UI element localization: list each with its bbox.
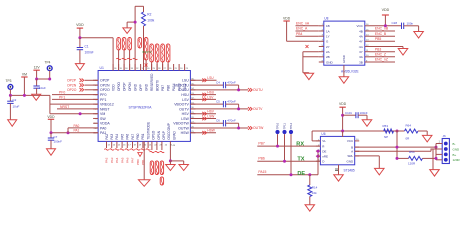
svg-text:HSW: HSW	[207, 129, 214, 133]
svg-text:VCC: VCC	[347, 139, 354, 143]
svg-text:3Y: 3Y	[359, 50, 363, 54]
ground below J6	[430, 170, 440, 177]
svg-text:nG: nG	[359, 45, 364, 49]
ground for nG	[398, 49, 408, 56]
ground below C1	[75, 64, 84, 71]
net label ENC_nA wire	[296, 21, 319, 25]
svg-text:J6: J6	[443, 134, 447, 138]
svg-text:LSV: LSV	[207, 95, 214, 99]
svg-text:OP2O: OP2O	[67, 88, 77, 92]
capacitor C28 100n	[392, 21, 419, 31]
svg-text:GND: GND	[347, 159, 355, 163]
capacitor C4 470nF bootstrap U	[190, 80, 238, 89]
net label ENC_Z wire	[370, 53, 396, 57]
svg-text:PA1: PA1	[74, 129, 80, 133]
svg-text:R14: R14	[312, 186, 318, 190]
U1 right pin names	[173, 79, 189, 135]
port HSU	[190, 91, 216, 97]
svg-text:C1: C1	[85, 45, 89, 49]
svg-text:C2: C2	[13, 98, 17, 102]
svg-text:LSW: LSW	[181, 117, 189, 121]
wire EPAD to grounds	[169, 141, 184, 164]
wire 12V to TP4	[35, 78, 51, 81]
net labels OP1 group below U1	[150, 141, 165, 174]
power port 12V	[33, 66, 40, 79]
svg-text:PA0: PA0	[74, 124, 80, 128]
net label OSCCOMP below U1	[160, 177, 163, 185]
resistor R2 100k	[142, 6, 155, 70]
svg-text:TP10: TP10	[276, 122, 280, 129]
ground below C7	[47, 149, 56, 156]
svg-text:100nF: 100nF	[54, 140, 63, 144]
ground tie at BOOT0 divider	[123, 22, 135, 33]
no-connect X on 2Y	[306, 45, 309, 48]
testpoint TP11 on TX	[282, 123, 286, 163]
svg-text:ST3485: ST3485	[344, 168, 355, 172]
svg-text:HSV: HSV	[207, 110, 214, 114]
U1 left pin names	[100, 79, 114, 135]
svg-text:OP0P: OP0P	[122, 82, 126, 91]
capacitor C3 10uF 12V rail	[33, 79, 46, 94]
svg-text:PA5: PA5	[120, 134, 124, 140]
svg-text:PA3: PA3	[110, 157, 114, 163]
svg-text:VCC: VCC	[356, 24, 363, 28]
wire squiggles above U1 edge	[116, 58, 137, 59]
svg-text:SRL: SRL	[347, 154, 353, 158]
svg-text:OPP: OPP	[139, 84, 143, 91]
svg-text:ENC_A: ENC_A	[296, 27, 308, 31]
svg-text:STSPIN32F0A: STSPIN32F0A	[129, 105, 153, 109]
net label NRST wire	[57, 105, 98, 109]
U6 GND stub and ground	[334, 165, 344, 181]
svg-text:VDD: VDD	[339, 102, 347, 106]
net label PB5 wire	[370, 37, 396, 41]
svg-text:PB7: PB7	[161, 85, 165, 91]
net label PB3 wire	[370, 47, 396, 51]
svg-text:PB3: PB3	[375, 47, 382, 51]
wire VDD to PA0 PA1	[50, 128, 99, 134]
svg-text:PF1: PF1	[59, 95, 65, 99]
net label PB7 wire RX	[257, 142, 320, 147]
svg-text:1Y: 1Y	[326, 35, 330, 39]
svg-text:VM: VM	[100, 112, 105, 116]
svg-text:PA12: PA12	[183, 83, 187, 91]
svg-text:PB6: PB6	[166, 85, 170, 91]
wire OUTV with junction	[190, 107, 248, 110]
svg-text:VBOOTU: VBOOTU	[174, 83, 189, 87]
U8 GND stub and ground	[339, 65, 349, 83]
port HSV	[190, 110, 216, 116]
svg-text:OP1O: OP1O	[152, 130, 156, 139]
svg-text:VDDA: VDDA	[100, 122, 110, 126]
svg-text:ENC_B: ENC_B	[375, 32, 387, 36]
svg-text:U8: U8	[324, 17, 328, 21]
net label PB4 wire	[296, 32, 319, 36]
power port VDD above C1	[76, 23, 84, 38]
wire nG to ground	[370, 47, 404, 49]
svg-text:470nF: 470nF	[227, 100, 236, 104]
port OP2O with arrow	[67, 88, 98, 92]
U8 pin names	[326, 24, 364, 64]
no-connect x above U1	[145, 64, 148, 67]
svg-text:10uF: 10uF	[13, 105, 20, 109]
wire TP3 to VM rail	[9, 94, 50, 97]
svg-text:EPAD: EPAD	[172, 130, 176, 139]
wire VDD to U8 G pin	[287, 40, 319, 42]
U1 bottom pin numbers row	[108, 144, 174, 146]
svg-text:C7: C7	[54, 135, 58, 139]
svg-text:U6: U6	[321, 132, 325, 136]
net labels PB0 PB1 below U1	[136, 141, 146, 165]
svg-text:VDD: VDD	[76, 23, 84, 27]
wire VREG12	[50, 103, 98, 105]
capacitor C6 470nF bootstrap W	[190, 119, 238, 128]
svg-text:10k: 10k	[312, 191, 317, 195]
U1 right pin stubs	[190, 80, 195, 132]
power port VM	[21, 73, 27, 97]
svg-text:nRE: nRE	[322, 154, 328, 158]
svg-text:LSW: LSW	[207, 114, 214, 118]
svg-text:2Y: 2Y	[326, 45, 330, 49]
svg-text:VDD: VDD	[283, 17, 291, 21]
svg-text:BOOT0: BOOT0	[143, 50, 152, 54]
ground wire TESTMODE	[138, 141, 150, 186]
svg-text:C28: C28	[392, 21, 398, 25]
ground below C3	[32, 94, 41, 100]
wire VM net to U1 VM pin	[50, 95, 98, 115]
svg-text:1A: 1A	[326, 29, 330, 33]
U1 top pin names	[111, 73, 186, 91]
U8 pin stubs	[319, 26, 370, 62]
testpoint TP10 on RX	[275, 122, 279, 147]
svg-text:PA2: PA2	[105, 157, 109, 163]
svg-text:PA14: PA14	[172, 83, 176, 91]
resistor R54 120R termination	[396, 150, 437, 165]
ground for 2A 2B	[304, 73, 314, 80]
svg-text:3A: 3A	[359, 55, 363, 59]
ground right of R64	[422, 135, 432, 142]
svg-text:PA13: PA13	[177, 83, 181, 91]
net labels PB column above U1	[138, 38, 170, 71]
port LSU	[190, 76, 216, 82]
port LSV	[190, 95, 216, 101]
svg-text:TP3: TP3	[6, 79, 12, 83]
U6 pin numbers	[318, 139, 359, 162]
svg-text:PB0: PB0	[136, 159, 140, 165]
U1 bottom pin names	[105, 122, 177, 140]
svg-text:OP2N: OP2N	[67, 83, 77, 87]
op-amp U1 body STSPIN32F0A	[98, 66, 190, 141]
capacitor C7 100nF	[48, 133, 62, 149]
svg-text:DE: DE	[297, 171, 305, 177]
svg-text:OUTV: OUTV	[253, 107, 263, 111]
svg-text:OUTW: OUTW	[253, 126, 264, 130]
wire OUTW with junction	[190, 127, 248, 130]
svg-text:B-: B-	[453, 142, 456, 146]
svg-text:OSCCOMP: OSCCOMP	[167, 123, 171, 139]
svg-text:HSV: HSV	[182, 112, 190, 116]
svg-text:R53: R53	[383, 124, 389, 128]
svg-text:PA2: PA2	[105, 134, 109, 140]
svg-text:OP2N: OP2N	[100, 83, 110, 87]
svg-text:VBOOTV: VBOOTV	[174, 103, 189, 107]
svg-text:RX: RX	[296, 141, 304, 147]
port OP2P with arrow	[67, 79, 98, 83]
svg-text:OUTU: OUTU	[253, 88, 263, 92]
svg-text:GND: GND	[144, 83, 148, 91]
net label ENC_B wire	[370, 32, 396, 36]
svg-text:VL: VL	[322, 139, 326, 143]
svg-text:PB5: PB5	[375, 37, 382, 41]
svg-text:ENC_nB: ENC_nB	[375, 27, 389, 31]
svg-text:VDD: VDD	[111, 84, 115, 91]
svg-text:PA4: PA4	[115, 134, 119, 140]
svg-text:PF0: PF0	[59, 91, 65, 95]
svg-text:VREG12: VREG12	[100, 103, 114, 107]
IC U6 body ST3485	[320, 132, 354, 172]
svg-text:OP2P: OP2P	[100, 79, 110, 83]
svg-text:R64: R64	[406, 124, 412, 128]
svg-text:OUTV: OUTV	[179, 107, 189, 111]
ground EPAD 2	[179, 165, 189, 171]
svg-text:100nF: 100nF	[85, 51, 94, 55]
svg-text:OP2P: OP2P	[67, 79, 77, 83]
ground right of C101	[362, 120, 372, 127]
power port VDD above C28	[382, 8, 390, 15]
port OUTV arrow	[248, 107, 263, 111]
port HSW	[190, 129, 216, 135]
svg-text:3B: 3B	[359, 60, 363, 64]
svg-text:PB0: PB0	[136, 133, 140, 139]
svg-text:HSU: HSU	[207, 91, 214, 95]
net label ENC_nB wire	[370, 27, 396, 31]
svg-text:BOOT0: BOOT0	[155, 80, 159, 91]
svg-text:4Y: 4Y	[359, 40, 363, 44]
wire GND column x135.7	[134, 6, 144, 70]
svg-text:U1: U1	[100, 66, 104, 70]
wire J6 pin2 to ground	[433, 149, 436, 170]
svg-text:PA6: PA6	[126, 134, 130, 140]
IC U8 body AM26LV32E	[324, 17, 365, 74]
testpoint TP4	[45, 61, 53, 80]
capacitor C5 470nF bootstrap V	[190, 100, 238, 109]
U1 top pin stubs	[113, 64, 185, 71]
svg-text:GND: GND	[133, 83, 137, 91]
net label PF0 wire	[52, 91, 98, 95]
ground for SRL	[375, 168, 385, 175]
power port VDD left of U8	[283, 17, 291, 42]
svg-text:TP12: TP12	[289, 122, 293, 129]
testpoint TP12 on DE	[289, 122, 293, 176]
svg-text:LSV: LSV	[182, 98, 189, 102]
port LSW	[190, 114, 216, 120]
svg-text:120R: 120R	[408, 162, 416, 166]
svg-text:VBOOTW: VBOOTW	[173, 122, 189, 126]
svg-text:HSU: HSU	[181, 93, 189, 97]
port OUTU arrow	[248, 88, 263, 92]
svg-text:TP4: TP4	[45, 61, 51, 65]
svg-text:NRST: NRST	[100, 107, 110, 111]
svg-text:100n: 100n	[407, 21, 414, 25]
svg-text:OP1P: OP1P	[162, 131, 166, 140]
node VDD rail to U1 pin1	[78, 36, 113, 70]
svg-text:PA7: PA7	[131, 134, 135, 140]
svg-text:LSU: LSU	[182, 79, 189, 83]
svg-text:100nF: 100nF	[360, 111, 368, 115]
U6 pin names	[322, 139, 354, 163]
svg-text:GND: GND	[453, 147, 461, 151]
svg-text:TX: TX	[297, 157, 304, 163]
svg-text:C101: C101	[345, 111, 352, 115]
svg-text:VM: VM	[22, 73, 27, 77]
J6 pin stubs and vertical tie	[435, 144, 443, 160]
port OP2N with arrow	[67, 83, 98, 87]
capacitor C101 100nF	[341, 111, 368, 120]
svg-text:B+: B+	[453, 153, 457, 157]
wire DE up to DE and nRE pins	[317, 150, 321, 175]
resistor R53 NP on VDD rail	[383, 124, 394, 139]
svg-text:ENC_nA: ENC_nA	[296, 21, 310, 25]
net labels PA2-PA7 below U1	[104, 141, 134, 163]
svg-text:PA0: PA0	[100, 126, 106, 130]
svg-text:470nF: 470nF	[227, 80, 236, 84]
wire 2A 2B tie to ground	[303, 52, 319, 73]
svg-text:A: A	[351, 150, 353, 154]
ground EPAD 1	[166, 165, 176, 171]
squiggle TESTMODE column	[146, 141, 150, 150]
svg-text:OP0N: OP0N	[128, 82, 132, 91]
ground right of C28	[414, 32, 424, 39]
net labels OP0 column above U1	[117, 38, 132, 71]
net label ENC_nZ wire	[370, 58, 396, 62]
svg-text:2B: 2B	[326, 55, 330, 59]
svg-text:OUTW: OUTW	[178, 126, 189, 130]
svg-text:EPAD: EPAD	[342, 55, 346, 62]
svg-text:RESERVED: RESERVED	[150, 73, 154, 91]
power port VDD above C101	[339, 102, 347, 131]
ground below C2	[8, 120, 17, 127]
power port VDD left lower	[47, 115, 55, 133]
svg-text:HSW: HSW	[181, 131, 190, 135]
svg-text:OP0O: OP0O	[117, 82, 121, 91]
svg-text:PA3: PA3	[110, 134, 114, 140]
svg-text:PB7: PB7	[258, 142, 265, 146]
svg-text:PF0: PF0	[100, 93, 106, 97]
net label PB6 wire TX	[257, 157, 320, 162]
svg-text:TESTMODE: TESTMODE	[146, 122, 150, 140]
svg-text:120R: 120R	[453, 158, 461, 162]
svg-text:SW: SW	[100, 117, 106, 121]
net label ENC_A wire	[296, 27, 319, 31]
svg-text:DE: DE	[322, 149, 326, 153]
svg-text:100k: 100k	[147, 19, 154, 23]
wire OUTU with junction	[190, 88, 248, 91]
ground below R14	[305, 205, 315, 212]
connector J6 RS485	[442, 134, 449, 163]
svg-text:C4: C4	[216, 80, 220, 84]
svg-text:470nF: 470nF	[227, 119, 236, 123]
svg-text:PA15: PA15	[258, 170, 266, 174]
svg-text:PF1: PF1	[100, 98, 106, 102]
svg-text:ENC_nZ: ENC_nZ	[375, 58, 388, 62]
svg-text:C6: C6	[216, 119, 220, 123]
node junction x397 rail	[394, 130, 399, 159]
svg-text:10uF: 10uF	[39, 86, 46, 90]
svg-text:OP1N: OP1N	[157, 130, 161, 139]
svg-text:12V: 12V	[34, 66, 41, 70]
net label PA15 wire DE	[257, 170, 318, 175]
wire B to connector	[355, 146, 438, 149]
wire U8 VCC to VDD and C28	[370, 15, 402, 27]
U1 left pin stubs	[93, 80, 98, 132]
svg-text:PA6: PA6	[126, 157, 130, 163]
svg-text:PA5: PA5	[120, 157, 124, 163]
svg-text:2A: 2A	[326, 50, 330, 54]
net label PF1 wire	[52, 95, 98, 99]
svg-text:PB4: PB4	[296, 32, 303, 36]
U6 pin stubs	[316, 141, 359, 161]
U1 right pin numbers	[191, 79, 194, 133]
svg-text:LSU: LSU	[207, 76, 214, 80]
svg-text:ENC_Z: ENC_Z	[375, 53, 386, 57]
U8 pin numbers	[322, 24, 370, 62]
resistor R64 0R	[397, 124, 427, 141]
arrow marks below PB1 column	[138, 153, 143, 157]
svg-text:R54: R54	[409, 150, 415, 154]
svg-text:4B: 4B	[359, 29, 363, 33]
U1 top pin numbers	[114, 68, 189, 70]
wire SRL to ground	[355, 156, 380, 169]
svg-text:R2: R2	[147, 13, 151, 17]
svg-text:NRST: NRST	[60, 105, 69, 109]
svg-text:PB1: PB1	[141, 133, 145, 139]
svg-text:VDD: VDD	[382, 8, 390, 12]
capacitor C1 100nF	[77, 38, 94, 64]
port OUTW arrow	[248, 126, 264, 130]
svg-text:VDD: VDD	[47, 115, 55, 119]
svg-text:4A: 4A	[359, 35, 363, 39]
svg-text:1B: 1B	[326, 24, 330, 28]
svg-text:GND: GND	[326, 60, 334, 64]
svg-text:OP2O: OP2O	[100, 88, 110, 92]
svg-text:NP: NP	[384, 135, 388, 139]
resistor R14 10k pulldown	[308, 173, 318, 205]
wire A to connector	[355, 149, 436, 151]
wire VDD rail to U6 VL	[312, 130, 397, 141]
testpoint TP3	[6, 79, 13, 96]
svg-text:C5: C5	[216, 100, 220, 104]
svg-text:PA7: PA7	[131, 157, 135, 163]
capacitor C2 10uF	[7, 95, 19, 119]
svg-text:PB6: PB6	[258, 157, 265, 161]
svg-text:TP11: TP11	[283, 123, 287, 130]
thermal pad mark below U6	[335, 169, 338, 171]
U1 left pin numbers	[94, 80, 97, 134]
svg-text:PA4: PA4	[115, 157, 119, 163]
